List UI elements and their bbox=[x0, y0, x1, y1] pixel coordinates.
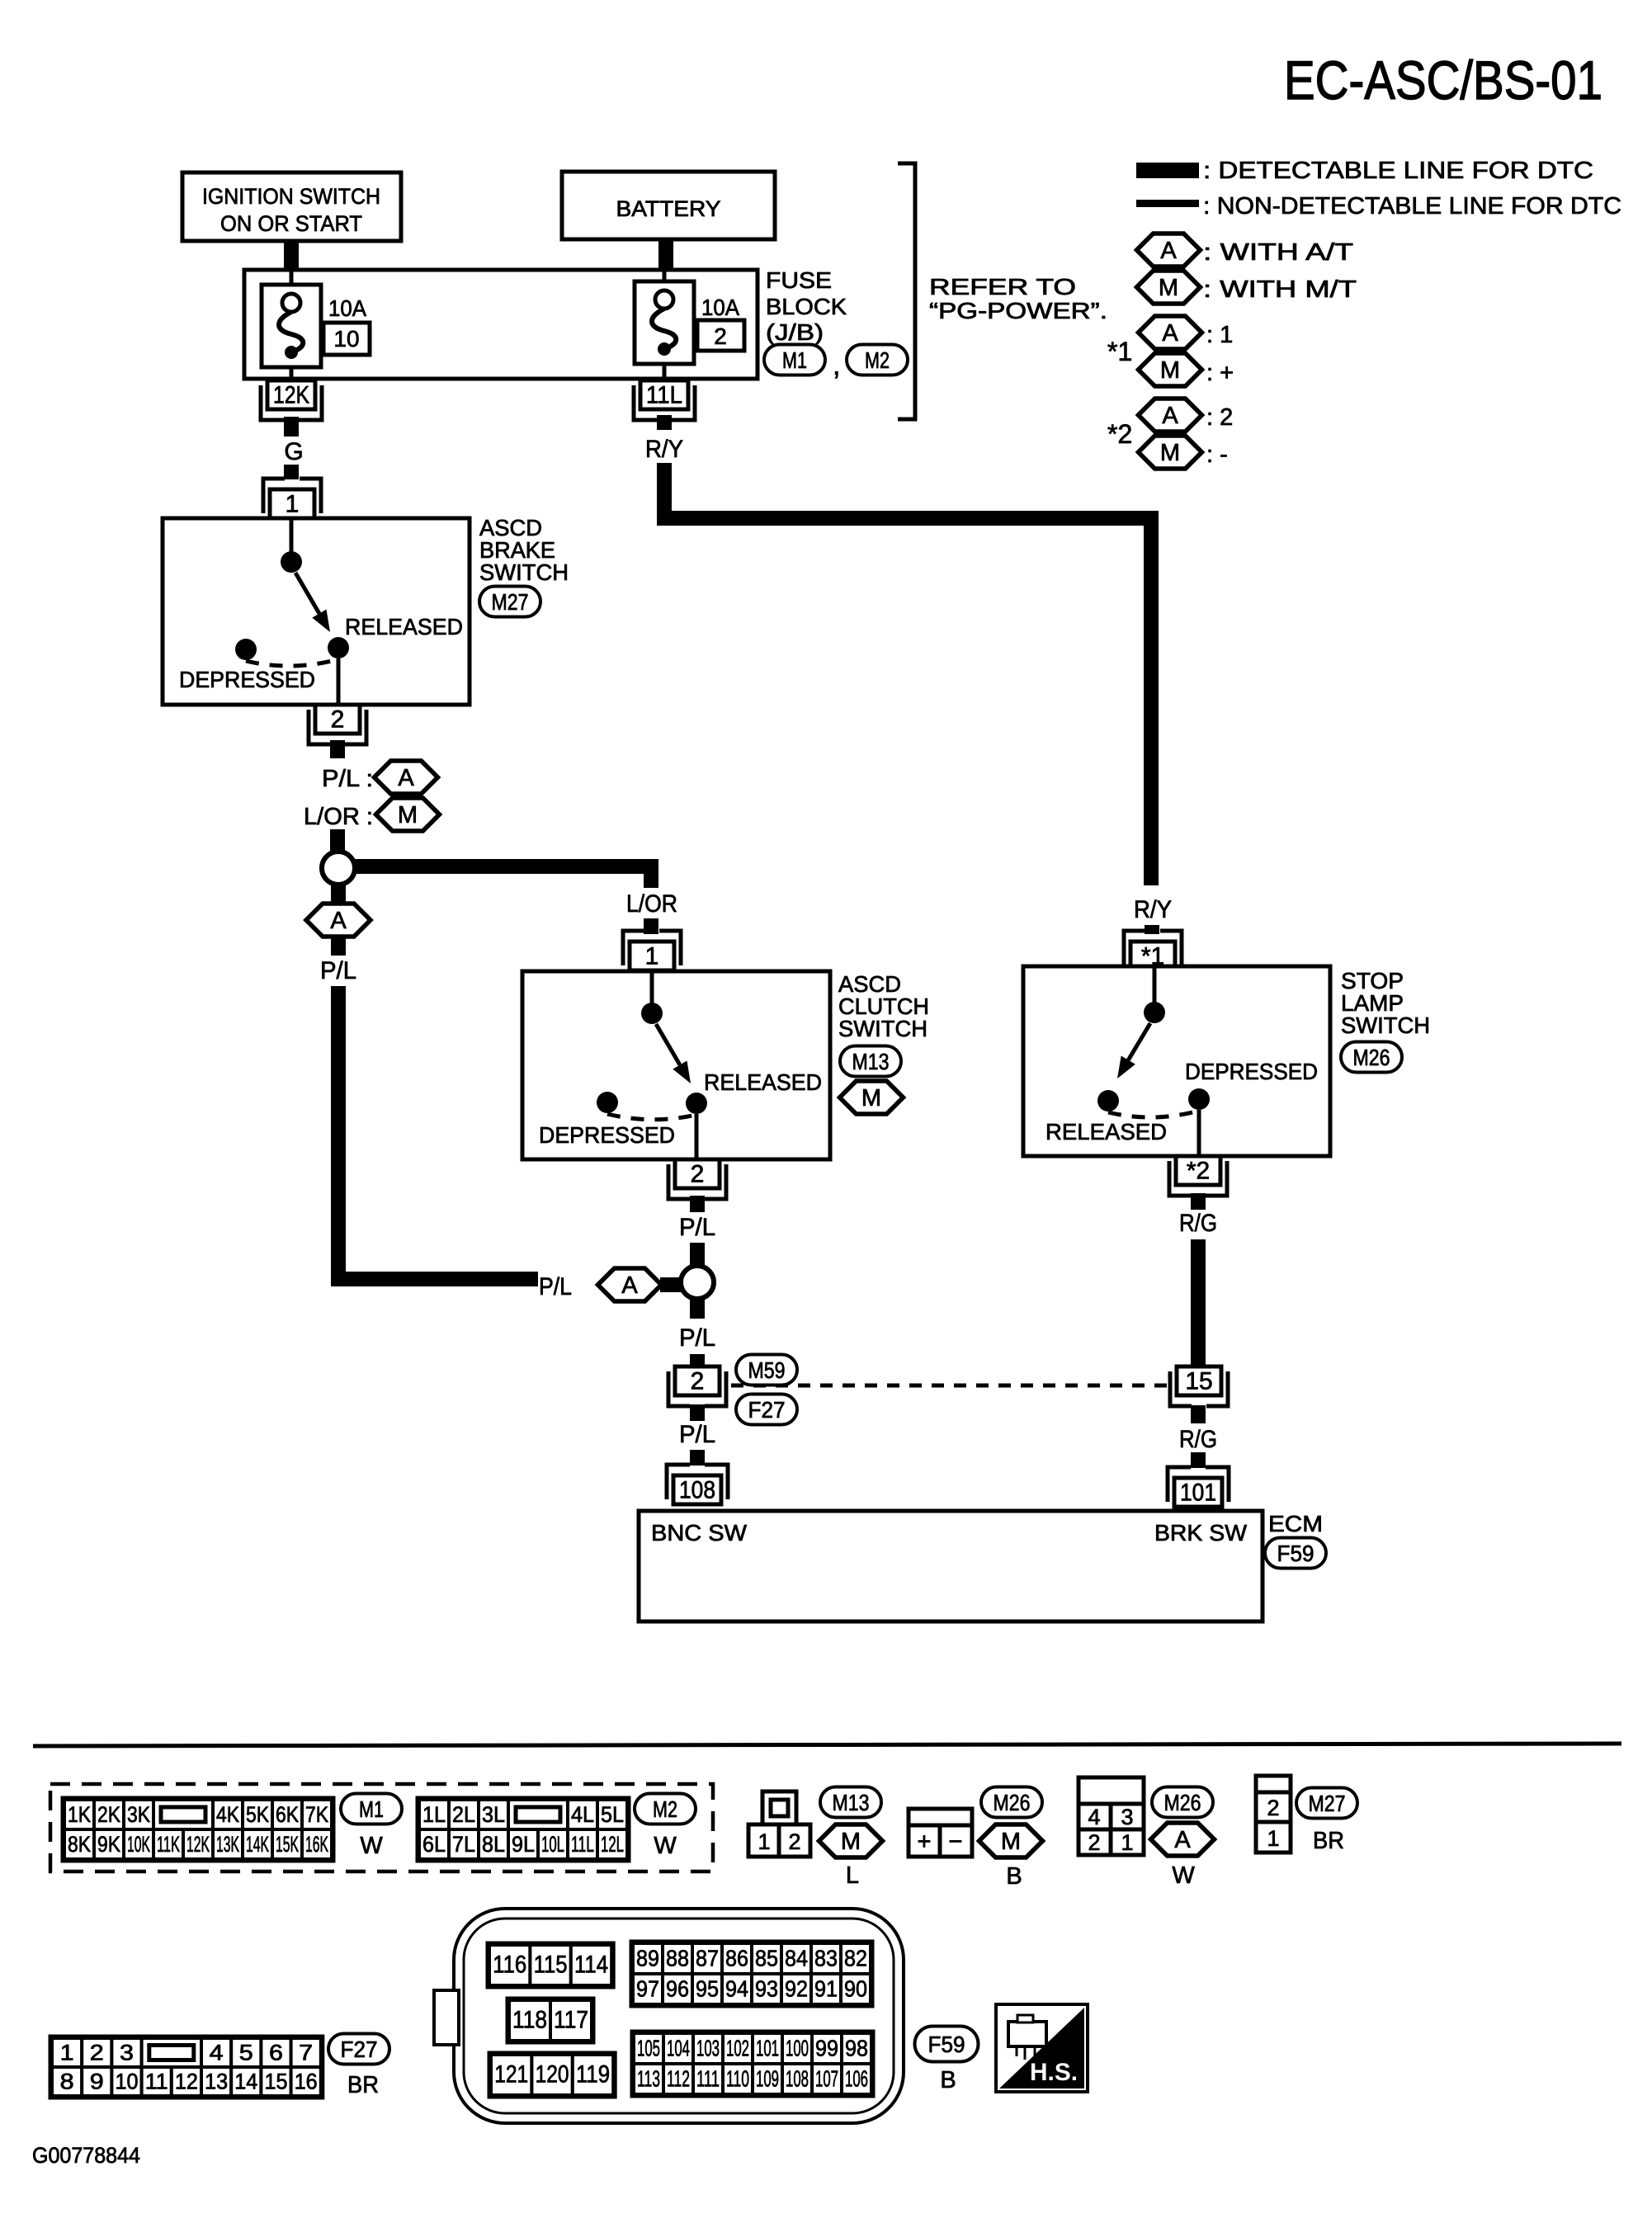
svg-text:2: 2 bbox=[1088, 1830, 1100, 1855]
svg-text:10L: 10L bbox=[541, 1832, 564, 1857]
connector 101 bbox=[1168, 1467, 1229, 1507]
legend *1 hexagon M value + bbox=[1139, 353, 1234, 386]
svg-text:P/L :: P/L : bbox=[322, 766, 373, 792]
svg-text:5: 5 bbox=[239, 2041, 253, 2065]
ECM pin label BNC SW bbox=[651, 1520, 748, 1546]
svg-text:L/OR: L/OR bbox=[626, 890, 677, 918]
svg-text:3K: 3K bbox=[127, 1802, 150, 1827]
svg-text:RELEASED: RELEASED bbox=[1045, 1119, 1167, 1145]
svg-text:,: , bbox=[833, 350, 840, 381]
svg-text:P/L: P/L bbox=[679, 1324, 715, 1352]
brake switch common contact bbox=[281, 518, 302, 573]
svg-text:EC-ASC/BS-01: EC-ASC/BS-01 bbox=[1284, 50, 1602, 111]
svg-text:100: 100 bbox=[786, 2036, 809, 2061]
connector M26 oval, hexagon M, color B bbox=[979, 1787, 1043, 1890]
svg-text:BR: BR bbox=[1313, 1828, 1344, 1854]
wire battery to fuse block bbox=[658, 239, 673, 271]
svg-text:101: 101 bbox=[756, 2036, 779, 2061]
wire stub below junction bbox=[331, 884, 346, 904]
svg-text:: 2: : 2 bbox=[1206, 404, 1233, 431]
wire fuse10 to 12K bbox=[290, 367, 294, 382]
svg-text:2: 2 bbox=[90, 2041, 104, 2065]
svg-text:14K: 14K bbox=[246, 1832, 269, 1857]
part number G00778844 bbox=[32, 2143, 140, 2168]
connector M26 4-pin drawing bbox=[1079, 1777, 1144, 1855]
svg-text:15: 15 bbox=[1185, 1368, 1212, 1395]
svg-text:10A: 10A bbox=[328, 295, 366, 321]
svg-text:F27: F27 bbox=[748, 1397, 786, 1423]
svg-text:P/L: P/L bbox=[679, 1421, 715, 1448]
wire ignition to fuse block bbox=[284, 241, 299, 271]
svg-text:8L: 8L bbox=[482, 1832, 505, 1857]
wire into fuse 10 bbox=[290, 270, 294, 289]
svg-text:2: 2 bbox=[1267, 1796, 1279, 1820]
legend detectable text bbox=[1203, 158, 1593, 184]
ECM grid 121-119 bbox=[489, 2053, 615, 2097]
wire R/G run to 15 bbox=[1191, 1239, 1206, 1365]
wire stub above junction2 bbox=[690, 1243, 705, 1267]
svg-text:15: 15 bbox=[265, 2070, 288, 2094]
wire label G bbox=[284, 438, 303, 465]
svg-text:3: 3 bbox=[120, 2041, 134, 2065]
ECM grid 105-106 bbox=[632, 2032, 873, 2096]
svg-text:M: M bbox=[841, 1829, 861, 1855]
svg-text:“PG-POWER”.: “PG-POWER”. bbox=[929, 298, 1107, 323]
svg-text:8: 8 bbox=[60, 2070, 74, 2094]
svg-text:F59: F59 bbox=[928, 2032, 965, 2057]
brake switch dashed arc bbox=[246, 659, 338, 666]
svg-text:BRK SW: BRK SW bbox=[1154, 1520, 1248, 1546]
svg-text:RELEASED: RELEASED bbox=[345, 614, 463, 640]
wire label L/OR clutch bbox=[626, 890, 677, 918]
connector 1 brake switch bbox=[263, 479, 321, 518]
legend *2 hexagon A value 2 bbox=[1139, 399, 1234, 432]
svg-text:95: 95 bbox=[696, 1976, 719, 2002]
svg-text:13: 13 bbox=[205, 2070, 228, 2094]
svg-text:W: W bbox=[1172, 1862, 1195, 1889]
brake switch DEPRESSED label bbox=[179, 667, 315, 692]
connector 12K bbox=[261, 380, 322, 420]
svg-text:M26: M26 bbox=[994, 1790, 1031, 1815]
svg-text:15K: 15K bbox=[276, 1832, 299, 1857]
svg-text:2: 2 bbox=[691, 1161, 705, 1188]
legend *1 hexagon A value 1 bbox=[1139, 316, 1234, 349]
clutch switch name label bbox=[838, 971, 929, 1041]
junction node circle bbox=[322, 852, 355, 885]
svg-text:106: 106 bbox=[845, 2066, 868, 2092]
svg-text:(J/B): (J/B) bbox=[766, 319, 824, 345]
svg-text:*2: *2 bbox=[1107, 419, 1132, 449]
svg-text:96: 96 bbox=[666, 1976, 689, 2002]
svg-text:115: 115 bbox=[534, 1952, 568, 1979]
wire label P/L above M59 bbox=[679, 1324, 715, 1352]
legend *2 label bbox=[1107, 419, 1132, 449]
svg-text:A: A bbox=[1160, 238, 1177, 264]
clutch switch moving arm arrow bbox=[656, 1024, 691, 1083]
connector ref M1 oval bbox=[764, 345, 825, 375]
wire stub below hexagon A bbox=[331, 937, 346, 956]
clutch switch released contact bbox=[686, 1093, 707, 1114]
svg-text:A: A bbox=[621, 1272, 638, 1299]
ECM name label bbox=[1268, 1511, 1323, 1536]
connector ref M27 oval bbox=[479, 587, 540, 617]
wire fuse2 to 11L bbox=[663, 364, 667, 380]
ECM grid 118-117 bbox=[507, 1999, 593, 2042]
comma between M1 M2 bbox=[833, 350, 840, 381]
svg-text:111: 111 bbox=[696, 2066, 720, 2092]
svg-text:8K: 8K bbox=[68, 1832, 91, 1857]
wire stub above connector 101 bbox=[1191, 1452, 1206, 1468]
svg-text:5K: 5K bbox=[246, 1802, 269, 1827]
svg-text:: DETECTABLE LINE FOR DTC: : DETECTABLE LINE FOR DTC bbox=[1203, 158, 1593, 184]
svg-text:M1: M1 bbox=[359, 1796, 384, 1822]
wire stub above connector M59 bbox=[690, 1354, 705, 1368]
svg-text:M2: M2 bbox=[653, 1796, 677, 1822]
svg-text:7L: 7L bbox=[452, 1832, 475, 1857]
fuse 10A no.2 bbox=[635, 281, 694, 364]
svg-text:FUSE: FUSE bbox=[766, 267, 832, 293]
svg-text:M13: M13 bbox=[833, 1790, 870, 1815]
svg-text:A: A bbox=[398, 765, 414, 791]
svg-text:BLOCK: BLOCK bbox=[766, 294, 847, 319]
clutch switch dashed arc bbox=[607, 1114, 696, 1120]
svg-text:104: 104 bbox=[667, 2036, 690, 2061]
ECM grid 89-90 bbox=[631, 1942, 872, 2006]
svg-text:REFER TO: REFER TO bbox=[929, 274, 1076, 300]
clutch switch RELEASED label bbox=[704, 1069, 822, 1095]
connector *1 stop lamp switch bbox=[1124, 931, 1182, 970]
svg-text:2: 2 bbox=[691, 1368, 705, 1395]
legend non-detectable text bbox=[1203, 193, 1621, 219]
svg-text:112: 112 bbox=[667, 2066, 690, 2092]
svg-text:L: L bbox=[846, 1862, 859, 1889]
svg-text:11L: 11L bbox=[646, 382, 682, 409]
svg-text:W: W bbox=[654, 1833, 677, 1859]
ECM box bbox=[639, 1511, 1263, 1621]
svg-text:118: 118 bbox=[512, 2007, 547, 2034]
wire P/L long run to lower junction bbox=[338, 986, 538, 1279]
svg-text:6L: 6L bbox=[422, 1832, 446, 1857]
stop lamp switch name label bbox=[1341, 968, 1430, 1038]
svg-text:SWITCH: SWITCH bbox=[1341, 1012, 1430, 1038]
wire stub above connector 1 bbox=[284, 465, 299, 479]
ECM grid 116-114 bbox=[488, 1943, 613, 1987]
svg-text:2: 2 bbox=[714, 323, 727, 349]
brake switch name label bbox=[479, 515, 569, 585]
legend detectable line sample bbox=[1136, 163, 1199, 178]
svg-text:82: 82 bbox=[844, 1946, 867, 1971]
connector ref M13 oval bbox=[840, 1046, 901, 1077]
svg-text:1: 1 bbox=[1267, 1826, 1279, 1851]
svg-text:P/L: P/L bbox=[679, 1214, 715, 1241]
svg-text:B: B bbox=[940, 2067, 956, 2093]
svg-text:−: − bbox=[949, 1829, 963, 1855]
connector M2 pin grid bbox=[418, 1798, 629, 1861]
stop lamp common contact bbox=[1144, 966, 1165, 1023]
connector F59 ECM shell bbox=[434, 1909, 904, 2123]
svg-text:M26: M26 bbox=[1164, 1790, 1201, 1815]
svg-text:SWITCH: SWITCH bbox=[838, 1016, 927, 1041]
ignition switch box bbox=[182, 172, 401, 241]
wire stub above clutch connector 1 bbox=[644, 918, 658, 934]
svg-text:7K: 7K bbox=[305, 1802, 328, 1827]
wire stub above connector *1 bbox=[1145, 925, 1159, 934]
stop lamp depressed contact bbox=[1188, 1088, 1210, 1110]
brake switch output wire bbox=[337, 658, 341, 705]
wire stub below connector 2 bbox=[330, 740, 345, 758]
svg-text:: NON-DETECTABLE LINE FOR DTC: : NON-DETECTABLE LINE FOR DTC bbox=[1203, 193, 1621, 219]
svg-text:4L: 4L bbox=[571, 1802, 594, 1827]
label L/OR with hexagon M bbox=[304, 798, 440, 831]
svg-text:89: 89 bbox=[636, 1946, 659, 1971]
separator line bbox=[33, 1744, 1621, 1746]
ASCD clutch switch box bbox=[522, 971, 830, 1159]
svg-text:1K: 1K bbox=[68, 1802, 91, 1827]
stop lamp output wire bbox=[1197, 1110, 1201, 1156]
svg-text:94: 94 bbox=[725, 1976, 748, 2002]
svg-text:2: 2 bbox=[331, 706, 345, 734]
svg-text:ECM: ECM bbox=[1268, 1511, 1323, 1536]
connector M1 pin grid bbox=[63, 1798, 333, 1861]
svg-text:10A: 10A bbox=[701, 295, 739, 320]
legend *2 hexagon M value - bbox=[1139, 436, 1228, 469]
svg-text:6K: 6K bbox=[276, 1802, 299, 1827]
H.S. hand switch icon bbox=[996, 2004, 1088, 2092]
wire stub below *2 bbox=[1191, 1193, 1206, 1210]
svg-text:*1: *1 bbox=[1107, 337, 1132, 366]
svg-text:5L: 5L bbox=[601, 1802, 624, 1827]
wire stub above connector 108 bbox=[690, 1450, 705, 1465]
wire stub below M59 connector bbox=[690, 1404, 705, 1421]
svg-text:1L: 1L bbox=[422, 1802, 446, 1827]
ASCD brake switch box bbox=[163, 518, 470, 705]
svg-text:86: 86 bbox=[725, 1946, 748, 1971]
legend non-detectable line sample bbox=[1136, 200, 1199, 207]
svg-text:P/L: P/L bbox=[539, 1273, 572, 1300]
svg-text:A: A bbox=[1162, 403, 1178, 429]
wire label R/Y bbox=[645, 436, 683, 463]
svg-text:H.S.: H.S. bbox=[1030, 2059, 1078, 2086]
svg-text:L/OR :: L/OR : bbox=[304, 804, 373, 830]
hexagon A at lower junction bbox=[598, 1268, 662, 1301]
wire label R/G above 101 bbox=[1179, 1426, 1217, 1453]
connector 108 bbox=[667, 1465, 728, 1504]
svg-text:G00778844: G00778844 bbox=[32, 2143, 140, 2168]
svg-text:11L: 11L bbox=[571, 1832, 594, 1857]
brake switch released contact bbox=[328, 637, 349, 658]
svg-text:R/Y: R/Y bbox=[1134, 896, 1172, 923]
svg-text:DEPRESSED: DEPRESSED bbox=[1185, 1059, 1318, 1084]
svg-text:M2: M2 bbox=[865, 347, 890, 373]
svg-text:R/Y: R/Y bbox=[645, 436, 683, 463]
connector M27 drawing bbox=[1256, 1776, 1291, 1852]
svg-text:W: W bbox=[360, 1833, 383, 1859]
svg-text:M27: M27 bbox=[492, 589, 529, 615]
connector 15 bbox=[1170, 1366, 1228, 1406]
svg-text:12K: 12K bbox=[186, 1832, 210, 1857]
svg-text:M: M bbox=[1159, 275, 1178, 301]
svg-text:M27: M27 bbox=[1309, 1791, 1346, 1816]
svg-text:M: M bbox=[1160, 357, 1180, 384]
svg-text:97: 97 bbox=[636, 1976, 659, 2002]
wire stub below clutch connector 2 bbox=[690, 1196, 705, 1212]
connector M27 oval and color BR bbox=[1296, 1788, 1357, 1855]
label P/L with hexagon A bbox=[322, 761, 438, 794]
title EC-ASC/BS-01 bbox=[1284, 50, 1602, 111]
svg-text:1: 1 bbox=[758, 1829, 770, 1854]
wire label P/L clutch bbox=[679, 1214, 715, 1241]
stop lamp switch box bbox=[1023, 966, 1330, 1156]
svg-text:91: 91 bbox=[814, 1976, 838, 2002]
connector M26 +- drawing bbox=[909, 1809, 972, 1857]
brake switch RELEASED label bbox=[345, 614, 463, 640]
svg-text:R/G: R/G bbox=[1179, 1426, 1217, 1453]
connector M2 oval and color W bbox=[635, 1794, 696, 1860]
svg-text:114: 114 bbox=[574, 1952, 608, 1979]
svg-text:DEPRESSED: DEPRESSED bbox=[179, 667, 315, 692]
connector ref F27 oval bbox=[736, 1395, 797, 1425]
svg-text:ON OR START: ON OR START bbox=[220, 211, 362, 236]
connector 1 clutch switch bbox=[623, 931, 681, 970]
svg-text:11: 11 bbox=[145, 2070, 168, 2094]
connector ref M59 oval bbox=[736, 1355, 797, 1385]
svg-text:P/L: P/L bbox=[320, 957, 356, 984]
svg-text:DEPRESSED: DEPRESSED bbox=[539, 1122, 675, 1148]
svg-text:M13: M13 bbox=[852, 1049, 890, 1074]
svg-text:103: 103 bbox=[696, 2036, 720, 2061]
svg-text:1: 1 bbox=[1121, 1830, 1133, 1855]
clutch switch DEPRESSED label bbox=[539, 1122, 675, 1148]
svg-text:: 1: : 1 bbox=[1206, 322, 1233, 348]
svg-text:3L: 3L bbox=[482, 1802, 505, 1827]
svg-text:BNC SW: BNC SW bbox=[651, 1520, 748, 1546]
wire label R/Y at stop lamp bbox=[1134, 896, 1172, 923]
connector M13 oval, hexagon M, color L bbox=[819, 1787, 883, 1890]
text REFER TO PG-POWER bbox=[929, 274, 1107, 323]
wire stub below 15 bbox=[1191, 1405, 1206, 1423]
svg-text:A: A bbox=[1174, 1827, 1191, 1853]
wire stub below 12K bbox=[284, 417, 299, 437]
wire R/Y run to stop lamp switch bbox=[664, 463, 1151, 885]
brake switch moving arm arrow bbox=[295, 573, 330, 632]
fuse 10 label 10A bbox=[328, 295, 366, 321]
wire R/Y from 11L bbox=[657, 415, 672, 430]
svg-text:108: 108 bbox=[679, 1477, 715, 1504]
svg-text:M: M bbox=[398, 802, 418, 828]
fuse block J/B box bbox=[244, 270, 758, 379]
svg-text:: +: : + bbox=[1206, 360, 1234, 386]
svg-text:16K: 16K bbox=[305, 1832, 328, 1857]
svg-text:3: 3 bbox=[1121, 1805, 1133, 1829]
svg-text:: WITH M/T: : WITH M/T bbox=[1203, 276, 1357, 303]
svg-text:2: 2 bbox=[788, 1829, 800, 1854]
wire stub below junction2 bbox=[690, 1298, 705, 1319]
svg-text:M: M bbox=[1160, 440, 1180, 466]
connector F59 oval and color B bbox=[915, 2027, 979, 2094]
dashed group box M1 M2 bbox=[50, 1784, 713, 1871]
svg-text:99: 99 bbox=[815, 2036, 838, 2061]
fuse 2 number box bbox=[697, 320, 744, 351]
svg-text:: WITH A/T: : WITH A/T bbox=[1203, 239, 1353, 266]
svg-text:6: 6 bbox=[269, 2041, 283, 2065]
svg-text:11K: 11K bbox=[157, 1832, 180, 1857]
svg-text:105: 105 bbox=[637, 2036, 660, 2061]
connector 2 of M59/F27 bbox=[668, 1366, 726, 1406]
svg-text:: -: : - bbox=[1206, 441, 1228, 468]
svg-text:4: 4 bbox=[210, 2041, 224, 2065]
svg-text:1: 1 bbox=[286, 491, 300, 518]
svg-text:10K: 10K bbox=[127, 1832, 150, 1857]
battery box bbox=[562, 172, 775, 239]
junction node 2 circle bbox=[681, 1266, 714, 1299]
hexagon A on P/L branch bbox=[306, 904, 371, 937]
svg-text:BR: BR bbox=[347, 2072, 379, 2098]
svg-text:9K: 9K bbox=[97, 1832, 120, 1857]
wire stub above junction bbox=[330, 829, 345, 852]
dashed harness link M59-15 bbox=[731, 1384, 1168, 1388]
legend hexagon A with A/T bbox=[1137, 234, 1354, 267]
hexagon M clutch bbox=[840, 1081, 904, 1114]
svg-text:+: + bbox=[918, 1829, 932, 1855]
svg-text:87: 87 bbox=[696, 1946, 719, 1971]
svg-text:117: 117 bbox=[554, 2007, 588, 2034]
svg-text:83: 83 bbox=[814, 1946, 838, 1971]
svg-text:G: G bbox=[284, 438, 303, 465]
clutch switch common contact bbox=[641, 971, 663, 1024]
svg-text:16: 16 bbox=[295, 2070, 318, 2094]
svg-text:14: 14 bbox=[234, 2070, 257, 2094]
connector ref M26 oval bbox=[1341, 1042, 1402, 1073]
svg-text:M: M bbox=[1001, 1829, 1021, 1855]
wire label P/L left branch bbox=[320, 957, 356, 984]
connector M1 oval and color W bbox=[341, 1794, 402, 1860]
stop lamp DEPRESSED label bbox=[1185, 1059, 1318, 1084]
clutch switch output wire bbox=[695, 1114, 699, 1159]
svg-text:98: 98 bbox=[845, 2036, 868, 2061]
ECM pin label BRK SW bbox=[1154, 1520, 1248, 1546]
svg-text:93: 93 bbox=[755, 1976, 778, 2002]
fuse 2 label 10A bbox=[701, 295, 739, 320]
svg-text:2L: 2L bbox=[452, 1802, 475, 1827]
connector *2 stop lamp switch bbox=[1169, 1156, 1227, 1196]
svg-text:120: 120 bbox=[536, 2061, 569, 2088]
svg-text:9: 9 bbox=[90, 2070, 104, 2094]
svg-text:110: 110 bbox=[726, 2066, 749, 2092]
svg-text:M26: M26 bbox=[1353, 1045, 1390, 1070]
connector M26 oval, hexagon A, color W bbox=[1151, 1787, 1215, 1890]
svg-text:85: 85 bbox=[755, 1946, 778, 1971]
wire stub hexagon to junction2 bbox=[660, 1277, 682, 1292]
fuse 10A no.10 bbox=[262, 285, 321, 367]
fuse block label FUSE BLOCK (J/B) bbox=[766, 267, 847, 345]
connector ref M2 oval bbox=[847, 345, 908, 375]
stop lamp moving arm arrow bbox=[1117, 1023, 1150, 1078]
svg-text:SWITCH: SWITCH bbox=[479, 559, 569, 585]
wire into fuse 2 bbox=[663, 270, 667, 286]
wire label P/L above 108 bbox=[679, 1421, 715, 1448]
svg-text:10: 10 bbox=[333, 326, 359, 352]
connector ref F59 oval bbox=[1265, 1538, 1326, 1569]
wire junction to clutch pin 1 bbox=[354, 866, 651, 888]
svg-text:A: A bbox=[1162, 320, 1178, 347]
legend *1 label bbox=[1107, 337, 1132, 366]
brake switch depressed contact bbox=[235, 639, 257, 660]
svg-text:4K: 4K bbox=[216, 1802, 239, 1827]
legend hexagon M with M/T bbox=[1137, 271, 1357, 304]
svg-text:121: 121 bbox=[494, 2061, 528, 2088]
svg-text:F27: F27 bbox=[341, 2037, 378, 2062]
svg-text:101: 101 bbox=[1180, 1480, 1216, 1507]
